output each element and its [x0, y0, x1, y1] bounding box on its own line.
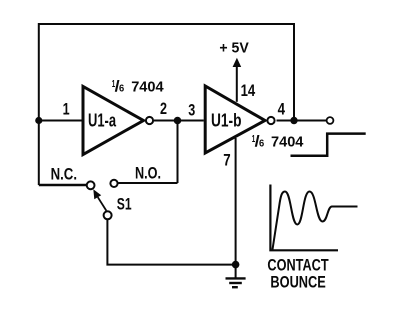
svg-text:7404: 7404 [131, 79, 164, 96]
svg-text:+ 5V: + 5V [219, 41, 249, 57]
svg-text:N.C.: N.C. [51, 166, 77, 184]
svg-text:N.O.: N.O. [135, 165, 161, 183]
svg-text:BOUNCE: BOUNCE [270, 273, 325, 292]
svg-text:7404: 7404 [271, 134, 304, 151]
svg-text:4: 4 [278, 100, 286, 119]
svg-text:1: 1 [63, 99, 70, 118]
svg-text:6: 6 [119, 84, 125, 95]
svg-text:2: 2 [160, 99, 167, 118]
svg-text:U1-b: U1-b [211, 111, 242, 131]
svg-text:14: 14 [241, 81, 256, 100]
svg-text:3: 3 [188, 100, 195, 119]
svg-text:7: 7 [223, 151, 230, 170]
svg-text:U1-a: U1-a [88, 111, 117, 131]
svg-text:6: 6 [259, 139, 265, 150]
svg-text:S1: S1 [117, 195, 132, 214]
